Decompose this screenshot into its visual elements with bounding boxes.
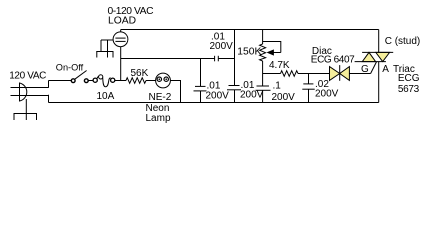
svg-text:LOAD: LOAD [108,16,136,27]
wire (4.7K to diac) [298,73,330,75]
svg-text:4.7K: 4.7K [269,60,290,71]
svg-text:5673: 5673 [398,84,420,95]
wire (diac to triac gate) [349,73,370,75]
svg-text:ECG: ECG [398,73,420,84]
wire (gate diagonal lead) [371,62,377,74]
wire (fuse to node X junction and 56K) [115,80,126,82]
wire (bottom rail / neutral) [49,102,379,104]
fuse F1 10A [93,75,115,87]
wire (top rail junction down at x=234) [234,30,236,86]
svg-text:G: G [361,64,369,75]
wire (switch to fuse) [89,80,94,82]
neon lamp DS1 NE-2 [156,73,171,88]
wire (triac MT1 stem to bottom rail) [378,62,380,103]
triac Q1 ECG 5673 [355,52,394,61]
load plug pins [96,40,113,58]
ground pin of plug P1 [14,99,38,120]
resistor R3 4.7K [281,71,299,77]
plug P1 (120 VAC line plug body) [20,83,27,102]
svg-text:200V: 200V [210,41,234,52]
diac D1 ECG 6407 [330,65,350,81]
capacitor C2 .01 200V [194,59,207,103]
wire (C1 to junction x=234) [219,58,235,60]
wire (top rail) [121,29,379,31]
svg-text:200V: 200V [315,89,339,100]
capacitor C3 .01 200V [227,86,241,103]
wire (triac MT2 stem to top rail) [378,30,380,53]
svg-text:10A: 10A [97,91,115,102]
wire (mid wire from node X to cap C1) [121,58,215,60]
wire (neutral blade from plug P1) [11,95,49,97]
svg-text:200V: 200V [206,91,230,102]
node Y [0,0,1,1]
svg-text:200V: 200V [240,90,264,101]
load outlet J1 [113,32,128,47]
wire (56K to neon lamp) [146,80,156,82]
svg-text:On-Off: On-Off [56,63,84,73]
node X [0,0,1,1]
capacitor C4 .1 200V [256,74,271,103]
wire (neutral jog down to bottom rail) [48,95,50,103]
svg-text:ECG 6407: ECG 6407 [311,55,355,66]
svg-text:NE-2: NE-2 [149,92,172,103]
potentiometer R2 150K [260,42,281,62]
wire (load top stem) [120,30,122,33]
wire (hot jog up to switch) [48,81,50,88]
wire (load bottom stem down to node X) [120,47,122,81]
resistor R1 56K [126,78,146,84]
wire (switched hot to switch S1) [49,80,72,82]
svg-text:.1: .1 [273,81,282,92]
capacitor C5 .02 200V [302,74,314,103]
wire (hot blade from plug P1) [11,87,49,89]
wire (pot bottom to node Y) [262,61,264,74]
svg-text:56K: 56K [131,68,149,79]
svg-text:Lamp: Lamp [146,113,171,124]
svg-text:120 VAC: 120 VAC [9,71,46,82]
wire (neon lamp right lead) [170,81,180,103]
capacitor C1 .01 200V (horizontal) [215,56,219,62]
wire (node Y to 4.7K) [263,73,281,75]
switch S1 On-Off [71,71,88,83]
svg-text:150K: 150K [237,47,261,58]
svg-text:C (stud): C (stud) [385,36,421,47]
svg-text:200V: 200V [272,92,296,103]
wire (top rail down to potentiometer R2) [262,30,264,45]
svg-text:A: A [382,64,389,75]
